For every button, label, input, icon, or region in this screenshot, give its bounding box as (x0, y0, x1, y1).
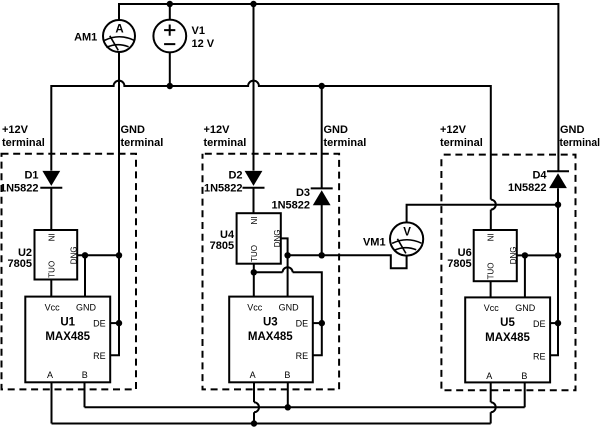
svg-text:TUO: TUO (47, 261, 56, 278)
svg-text:1N5822: 1N5822 (0, 182, 39, 194)
svg-text:GND: GND (324, 124, 349, 136)
svg-text:A: A (115, 24, 123, 36)
svg-text:MAX485: MAX485 (45, 331, 90, 343)
svg-text:Vcc: Vcc (45, 302, 61, 312)
node junction U3 B bus B (285, 404, 291, 410)
wire D3 column (321, 86, 323, 255)
svg-text:TUO: TUO (487, 263, 496, 280)
wire AM1 down to GND net and DE/RE block1 (110, 52, 119, 355)
voltage source V1 (153, 20, 186, 53)
svg-text:RE: RE (533, 351, 546, 361)
wire U6 OUT to U5 Vcc (490, 281, 492, 297)
wire U2 OUT to U1 Vcc (50, 280, 52, 297)
wire hop U3 A over bus B (254, 402, 259, 412)
node junction U4 out (251, 269, 257, 275)
svg-text:12 V: 12 V (192, 38, 215, 50)
diode D4 (547, 171, 569, 188)
wire gnd net block2 to VM1 (288, 255, 407, 268)
svg-text:GND: GND (121, 124, 146, 136)
wire U6 GND net (517, 254, 558, 256)
wire hop over U3 gnd wire (283, 267, 293, 272)
regulator U6 7805 (474, 230, 519, 281)
node junction V1 bottom rail2 (167, 83, 173, 89)
node junction D3 to gnd net (319, 252, 325, 258)
svg-text:B: B (82, 370, 88, 380)
wire U5 DE (550, 322, 558, 324)
IC U5 MAX485 (465, 297, 550, 382)
node junction U4 gnd / U3 gnd (284, 252, 290, 258)
svg-text:terminal: terminal (440, 137, 483, 149)
dashed box block1 (2, 154, 137, 390)
svg-text:U1: U1 (60, 316, 75, 328)
node junction D2 branch top rail (250, 1, 256, 7)
svg-text:NI: NI (47, 233, 56, 241)
wire rail2 V1 minus with hops (51, 81, 491, 230)
IC U1 MAX485 (25, 297, 110, 383)
svg-text:terminal: terminal (121, 137, 164, 149)
svg-text:A: A (486, 371, 492, 381)
node junction V1 top rail (167, 1, 173, 7)
svg-text:terminal: terminal (204, 137, 247, 149)
wire bus A (52, 423, 491, 425)
ammeter AM1 (103, 20, 135, 52)
svg-text:+12V: +12V (2, 124, 29, 136)
node junction U6 gnd / U5 gnd (522, 252, 528, 258)
regulator U2 7805 (35, 230, 79, 280)
wire U5 A to bus A with hop (490, 382, 492, 423)
svg-text:7805: 7805 (447, 258, 471, 270)
svg-text:GND: GND (76, 302, 97, 312)
svg-text:V1: V1 (192, 25, 205, 37)
node junction U3 A bus A (251, 420, 257, 426)
svg-text:1N5822: 1N5822 (204, 182, 243, 194)
wire hop U5 A over bus B (491, 402, 496, 412)
wire hop of +12V drop over VM1 line (491, 200, 496, 210)
wire D2 branch vertical (253, 4, 255, 171)
svg-text:D1: D1 (24, 170, 38, 182)
svg-text:U5: U5 (500, 317, 515, 329)
svg-text:DE: DE (93, 318, 106, 328)
voltmeter VM1 (390, 222, 423, 255)
svg-text:DE: DE (296, 318, 309, 328)
svg-text:terminal: terminal (560, 137, 600, 149)
svg-text:AM1: AM1 (74, 31, 97, 43)
svg-text:7805: 7805 (8, 258, 32, 270)
svg-text:B: B (284, 370, 290, 380)
svg-text:A: A (47, 370, 53, 380)
svg-text:terminal: terminal (2, 137, 45, 149)
diode D2 (243, 171, 265, 188)
node junction VM1 line D4 column (555, 202, 561, 208)
dashed box block2 (203, 154, 340, 390)
wire U1 A to bus A (51, 382, 53, 423)
svg-text:D2: D2 (228, 170, 242, 182)
wire U1 GND pin up (84, 255, 86, 296)
diode D1 (40, 171, 62, 188)
wire U3 DE (313, 322, 322, 324)
wire bus B (85, 406, 525, 408)
node junction U2 gnd / U1 gnd (82, 252, 88, 258)
svg-text:GND: GND (279, 302, 300, 312)
svg-text:+12V: +12V (440, 124, 467, 136)
wire U4 OUT to U3 Vcc (253, 264, 255, 297)
node junction DE block1 (116, 320, 122, 326)
node junction DE block3 (555, 320, 561, 326)
svg-text:B: B (521, 371, 527, 381)
wire D4 column down (550, 188, 558, 355)
svg-text:NI: NI (487, 233, 496, 241)
wire D1 to U2 (50, 188, 52, 230)
wire U3 A to bus A with hop (253, 382, 255, 423)
svg-text:D4: D4 (532, 169, 547, 181)
wire D2 to U4 (253, 188, 255, 214)
svg-text:V: V (403, 227, 411, 239)
svg-text:1N5822: 1N5822 (271, 199, 310, 211)
svg-text:Vcc: Vcc (484, 303, 500, 313)
wire U1 DE (110, 322, 119, 324)
wire U3 B to bus B (287, 382, 289, 407)
svg-text:MAX485: MAX485 (248, 331, 293, 343)
svg-text:VM1: VM1 (363, 236, 386, 248)
diode D3 (311, 188, 333, 205)
svg-text:+12V: +12V (204, 124, 231, 136)
node junction D3 branch rail2 (319, 83, 325, 89)
wire U5 B to bus B (524, 382, 526, 407)
wire U5 GND pin up (524, 255, 526, 297)
node junction DE block2 (319, 320, 325, 326)
svg-text:D3: D3 (296, 187, 310, 199)
wire V1 top (169, 4, 171, 19)
wire U4 GND jog to gnd net (281, 238, 288, 255)
svg-text:NI: NI (250, 217, 259, 225)
svg-text:A: A (250, 370, 256, 380)
svg-text:Vcc: Vcc (247, 302, 263, 312)
node junction gnd column block1 (116, 252, 122, 258)
svg-text:DE: DE (533, 319, 546, 329)
svg-text:RE: RE (93, 351, 106, 361)
svg-text:TUO: TUO (250, 245, 259, 262)
wire U4 out to DE/RE with hop (254, 272, 322, 355)
svg-text:7805: 7805 (210, 240, 234, 252)
svg-text:U3: U3 (263, 316, 278, 328)
svg-text:terminal: terminal (324, 137, 367, 149)
svg-text:MAX485: MAX485 (485, 332, 530, 344)
svg-text:GND: GND (560, 124, 585, 136)
svg-text:RE: RE (296, 351, 309, 361)
regulator U4 7805 (237, 213, 283, 264)
wire U2 GND net (77, 254, 119, 256)
IC U3 MAX485 (229, 297, 313, 383)
svg-text:1N5822: 1N5822 (508, 182, 547, 194)
svg-text:GND: GND (515, 303, 536, 313)
node junction D4 column gnd net (555, 252, 561, 258)
wire U3 GND pin up (287, 255, 289, 296)
wire V1 bottom (169, 53, 171, 86)
dashed box block3 (441, 155, 575, 391)
wire U1 B to bus B (84, 382, 86, 407)
wire VM1 top to D4 column (407, 205, 558, 223)
wire top rail (119, 4, 558, 171)
